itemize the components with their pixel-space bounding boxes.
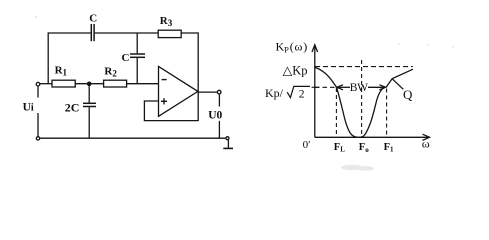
wire plus input feedback: [144, 101, 198, 121]
capacitor C (top): [91, 24, 94, 41]
tick at Kp/sqrt2 level: [312, 86, 320, 88]
svg-text:R2: R2: [104, 66, 117, 79]
dashed vertical F_L: [335, 88, 337, 137]
capacitor C (vertical): [130, 54, 145, 57]
input terminal Ui: [36, 82, 40, 86]
x-axis omega: [315, 134, 430, 140]
svg-text:R1: R1: [55, 65, 68, 78]
svg-text:0′: 0′: [303, 139, 311, 151]
wire top mid: [95, 32, 158, 34]
resistor R1: [52, 80, 75, 87]
dashed vertical F_o: [361, 60, 363, 135]
svg-text:FL: FL: [334, 142, 345, 154]
svg-text:Kp/: Kp/: [265, 86, 284, 100]
svg-text:2C: 2C: [65, 100, 80, 114]
wire R1 to node A: [75, 83, 103, 85]
junction node A: [88, 82, 91, 85]
wire output down lower segment: [218, 121, 220, 138]
output terminal UO: [217, 90, 221, 94]
wire R3 right to corner: [181, 33, 198, 121]
wire cap branch down: [136, 33, 138, 53]
op-amp plus sign: [161, 98, 167, 104]
ground terminal circle: [226, 137, 229, 140]
wire bottom rail: [40, 137, 226, 139]
svg-text:Ui: Ui: [23, 102, 34, 114]
wire input down lower segment: [37, 113, 39, 137]
response curve: [315, 67, 413, 137]
svg-text:BW: BW: [350, 82, 368, 94]
svg-text:Q: Q: [403, 87, 413, 102]
BW right arrow: [368, 85, 386, 90]
wire output down upper segment: [218, 94, 220, 107]
BW left arrow: [337, 85, 350, 90]
wire node A down: [88, 84, 90, 103]
svg-text:U0: U0: [208, 110, 222, 122]
op-amp minus sign: [162, 79, 167, 81]
Q leader line: [392, 79, 403, 90]
y-axis Kp(w): [312, 45, 318, 138]
wire R2 to op-amp minus: [127, 83, 159, 85]
svg-text:ω: ω: [422, 137, 430, 151]
svg-text:C: C: [89, 12, 97, 24]
wire top rail: [48, 33, 90, 84]
svg-text:2: 2: [299, 89, 305, 101]
resistor R3: [158, 30, 181, 37]
wire op-amp output: [198, 91, 217, 93]
bottom-left terminal: [36, 137, 39, 140]
resistor R2: [104, 80, 127, 87]
svg-text:△Kp: △Kp: [283, 63, 308, 77]
dashed level Kp/sqrt2: [315, 86, 336, 88]
wire cap to minus line: [136, 58, 138, 84]
op-amp U1: [159, 66, 198, 116]
scan smudge: [35, 16, 454, 171]
svg-text:F1: F1: [384, 142, 394, 154]
svg-text:Fo: Fo: [359, 142, 369, 154]
sqrt2 radical: [287, 86, 310, 97]
wire input down upper segment: [37, 86, 39, 98]
wire input to R1: [40, 83, 52, 85]
ground: [223, 140, 233, 149]
svg-text:C: C: [122, 52, 130, 64]
svg-text:KP(ω): KP(ω): [276, 40, 308, 55]
capacitor 2C: [83, 103, 96, 106]
dashed vertical F_1: [386, 89, 388, 137]
svg-text:R3: R3: [160, 15, 173, 28]
wire 2C to bottom rail: [88, 107, 90, 138]
dashed level delta Kp: [315, 66, 413, 68]
